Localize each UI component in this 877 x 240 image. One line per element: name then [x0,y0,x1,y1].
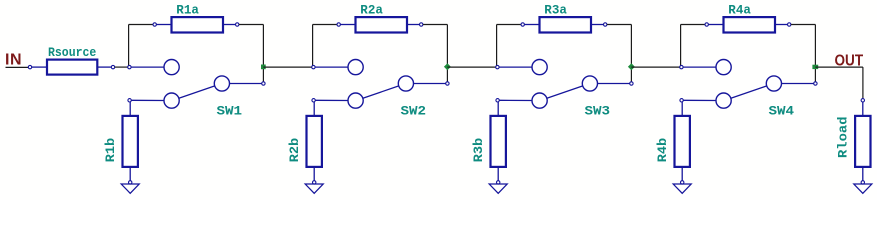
switch SW4 [680,60,817,119]
wire stage2 fork up and top branch [313,25,337,68]
svg-text:SW4: SW4 [769,104,795,118]
svg-text:SW2: SW2 [401,104,427,118]
wire R3a to output node [607,25,631,82]
ground stage1 [121,184,139,193]
ground stage3 [489,184,507,193]
resistor R3a [521,4,607,33]
svg-text:OUT: OUT [835,53,864,70]
wire stage4 to OUT [815,67,863,98]
resistor R3b [472,102,506,184]
wire R2a to output node [423,25,447,82]
junction node stage4 output [812,65,818,69]
svg-text:Rsource: Rsource [48,46,96,60]
ground stage2 [305,184,323,193]
svg-text:Rload: Rload [837,117,851,159]
svg-text:R3b: R3b [472,138,486,163]
switch SW1 [128,60,265,119]
wire R4a to output node [791,25,815,82]
wire Rsource to stage1 [115,66,128,68]
resistor Rload [837,99,871,184]
wire stage1 fork up and top branch [129,25,153,68]
junction node stage1 output [261,65,266,70]
wire R1a to output node [239,25,263,82]
switch SW2 [312,60,449,119]
junction node stage2 output [444,63,451,70]
svg-text:R4b: R4b [656,138,670,163]
svg-text:R4a: R4a [728,4,751,18]
junction node stage3 output [628,63,635,70]
svg-text:R2a: R2a [360,4,383,18]
resistor R1a [153,4,239,33]
resistor R1b [104,102,138,184]
svg-text:R3a: R3a [544,4,567,18]
svg-text:SW1: SW1 [217,104,243,118]
wire stage1 to stage2 [263,66,311,68]
svg-text:R2b: R2b [288,138,302,163]
svg-text:R1b: R1b [104,138,118,163]
port OUT [835,53,864,70]
resistor R4a [705,4,791,33]
resistor R4b [656,102,690,184]
ground stage4 [673,184,691,193]
resistor R2b [288,102,322,184]
wire stage3 fork up and top branch [497,25,521,68]
svg-text:SW3: SW3 [585,104,611,118]
resistor R2a [337,4,423,33]
wire stage2 to stage3 [447,66,495,68]
svg-text:R1a: R1a [176,4,199,18]
wire stage4 fork up and top branch [681,25,705,68]
port IN [5,52,28,69]
switch SW3 [496,60,633,119]
svg-text:IN: IN [5,52,22,69]
ground OUT [854,184,872,193]
wire stage3 to stage4 [631,66,679,68]
resistor Rsource [28,46,114,75]
